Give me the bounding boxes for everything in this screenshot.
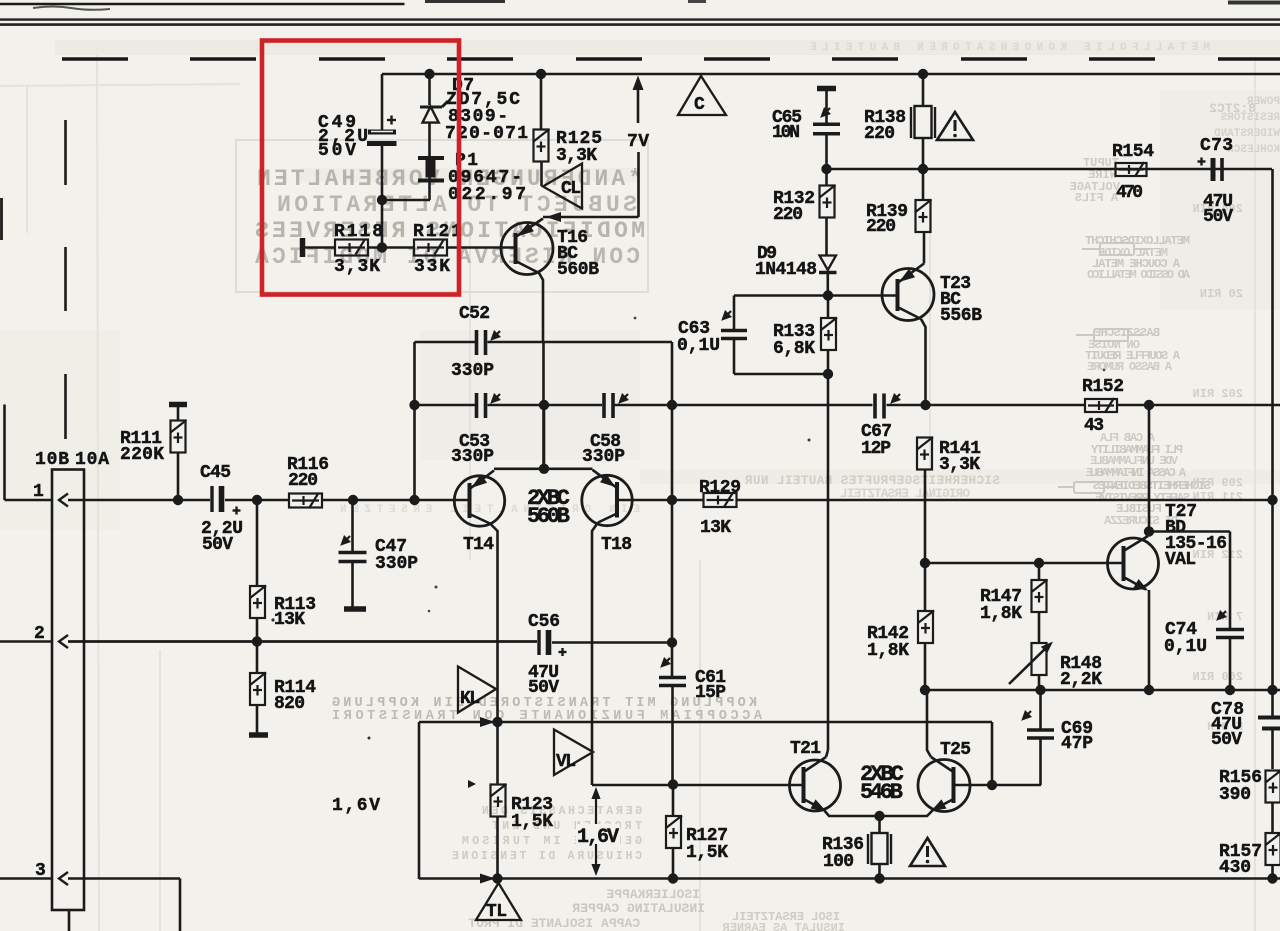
svg-text:INSULAT AS EARNER: INSULAT AS EARNER xyxy=(722,921,845,931)
resistor R114 xyxy=(256,642,259,674)
wire C52 row xyxy=(415,341,476,344)
capacitor C52 xyxy=(477,330,486,355)
transistor T25 xyxy=(918,760,970,812)
resistor R113 xyxy=(256,500,259,586)
svg-text:KL: KL xyxy=(460,689,480,709)
svg-text:220: 220 xyxy=(866,217,896,237)
node C65/R132 xyxy=(821,164,831,174)
svg-text:20 RIN: 20 RIN xyxy=(1200,287,1243,301)
svg-text:KOHLESCH: KOHLESCH xyxy=(1227,144,1280,156)
node column672 on wire500 xyxy=(667,495,677,505)
warning triangle top xyxy=(937,112,973,140)
dashed separator line xyxy=(62,57,1280,60)
svg-text:T18: T18 xyxy=(601,535,632,555)
svg-text:220: 220 xyxy=(773,205,803,225)
connector block xyxy=(52,470,84,911)
resistor R147 xyxy=(1038,563,1041,580)
resistor R152 xyxy=(1085,398,1117,413)
resistor R141 xyxy=(917,437,933,470)
node C61/T21 base xyxy=(668,779,678,789)
svg-text:R154: R154 xyxy=(1112,142,1154,162)
amplifier KL xyxy=(458,667,496,713)
svg-text:1,6V: 1,6V xyxy=(332,796,380,816)
wire row 169 xyxy=(827,168,1273,171)
svg-text:1,5K: 1,5K xyxy=(511,812,553,832)
wire right column mid xyxy=(1271,500,1274,716)
wire left edge feed xyxy=(0,198,3,240)
svg-text:TL: TL xyxy=(486,902,507,922)
svg-text:10A: 10A xyxy=(75,450,109,470)
capacitor C45 xyxy=(212,486,222,512)
node D9/T23 xyxy=(823,290,833,300)
svg-text:1,8K: 1,8K xyxy=(867,641,909,661)
capacitor C49 xyxy=(381,74,384,130)
wire column 672 xyxy=(671,405,674,500)
node xyxy=(377,195,387,205)
node R138/R139 xyxy=(918,164,928,174)
svg-text:CL: CL xyxy=(561,179,581,199)
resistor R121 xyxy=(414,240,447,256)
svg-text:50V: 50V xyxy=(318,141,356,161)
svg-text:R121: R121 xyxy=(413,222,462,242)
amplifier VL xyxy=(554,730,593,776)
svg-text:50V: 50V xyxy=(1211,730,1242,750)
trimmer R148 xyxy=(1032,643,1047,675)
wire T14-T18 tops xyxy=(494,467,593,470)
resistor R118 xyxy=(335,240,368,256)
wire R129 right xyxy=(736,499,1273,502)
svg-text:390: 390 xyxy=(1219,785,1251,805)
highlight red box xyxy=(262,41,459,295)
svg-text:50V: 50V xyxy=(202,535,233,555)
svg-text:330P: 330P xyxy=(451,361,494,381)
svg-text:43: 43 xyxy=(1084,416,1104,436)
capacitor C69 xyxy=(1039,690,1042,729)
wire top bus 7V xyxy=(382,73,1280,76)
node R118/R121 xyxy=(377,242,387,252)
triangle TL xyxy=(476,883,521,920)
wire bus 690 xyxy=(925,689,1280,692)
svg-text:R152: R152 xyxy=(1082,377,1124,397)
wire R125 to CL xyxy=(540,162,543,187)
svg-text:50V: 50V xyxy=(1203,207,1233,227)
svg-text:200 RIN: 200 RIN xyxy=(1193,670,1243,684)
svg-text:1,5K: 1,5K xyxy=(686,843,728,863)
label 7V with arrow to bus xyxy=(637,90,640,123)
top border double rule xyxy=(0,18,1280,20)
node top bus xyxy=(424,69,434,79)
wire T25 base right xyxy=(954,784,1042,787)
wire main bus row 405 xyxy=(415,404,476,407)
svg-text:POWER: POWER xyxy=(1247,96,1280,108)
node R147 top xyxy=(1034,558,1044,568)
svg-text:220: 220 xyxy=(864,124,895,144)
wire R116 to T14 xyxy=(322,499,470,502)
node emitters xyxy=(874,811,884,821)
wire pin2 right of C56 xyxy=(552,641,672,644)
node KL xyxy=(492,717,502,727)
node R136 bottom xyxy=(874,873,884,883)
wire T18 base to R129 xyxy=(617,499,704,502)
transistor T18 xyxy=(582,475,632,525)
svg-text:C45: C45 xyxy=(200,463,231,483)
capacitor C73 xyxy=(1213,158,1222,181)
wire C52 left drop xyxy=(413,342,416,405)
wire R121 to T16 base xyxy=(447,246,515,249)
svg-text:546B: 546B xyxy=(860,780,903,805)
resistor R157 xyxy=(1266,833,1280,866)
resistor R133 xyxy=(827,296,830,319)
svg-text:6,8K: 6,8K xyxy=(773,339,815,359)
svg-text:12P: 12P xyxy=(861,439,891,459)
node right column xyxy=(1267,495,1277,505)
node C74 bottom xyxy=(1225,685,1235,695)
node C45 right xyxy=(252,495,262,505)
node T25 base xyxy=(987,780,997,790)
wire CL output xyxy=(543,216,639,219)
capacitor C47 xyxy=(351,500,354,552)
node R116/C47 xyxy=(348,495,358,505)
left vertical dashed line xyxy=(64,120,67,439)
wire R118-R121 xyxy=(368,246,414,249)
wire T27 collector to C74 xyxy=(1149,530,1230,533)
svg-text:560B: 560B xyxy=(557,260,599,280)
svg-text:13K: 13K xyxy=(700,518,731,538)
node R113/pin2 xyxy=(252,636,262,646)
node C53 left xyxy=(409,400,419,410)
svg-text:50V: 50V xyxy=(528,678,559,698)
amplifier CL xyxy=(543,164,582,209)
resistor R116 xyxy=(289,493,322,508)
svg-text:T25: T25 xyxy=(940,740,971,760)
svg-text:1,8K: 1,8K xyxy=(980,604,1022,624)
node R152 right xyxy=(1144,400,1154,410)
svg-text:2,2K: 2,2K xyxy=(1060,670,1102,690)
wire to R118 xyxy=(305,246,336,249)
wire right column top xyxy=(1271,169,1274,500)
crystal P1 xyxy=(418,158,444,181)
node R141/R142 xyxy=(920,558,930,568)
svg-text:3,3K: 3,3K xyxy=(334,257,380,277)
node C45 left xyxy=(173,495,183,505)
svg-text:1,6V: 1,6V xyxy=(577,826,619,849)
node R142 bottom xyxy=(920,685,930,695)
wire T23 base row xyxy=(734,294,897,297)
svg-text:556B: 556B xyxy=(940,306,982,326)
svg-text:C52: C52 xyxy=(459,304,490,324)
svg-text:1N4148: 1N4148 xyxy=(755,260,817,280)
node column414/pin1 xyxy=(409,495,419,505)
wire column 828-T21 xyxy=(827,405,830,750)
svg-text:RESISTORS: RESISTORS xyxy=(1220,112,1280,124)
svg-text:R118: R118 xyxy=(334,222,383,242)
svg-text:C73: C73 xyxy=(1200,136,1233,156)
resistor R129 xyxy=(704,493,737,508)
svg-text:0,1U: 0,1U xyxy=(677,336,720,356)
capacitor C58 xyxy=(604,393,613,418)
resistor R142 xyxy=(924,563,927,611)
wire C52 right corner down xyxy=(671,342,674,405)
svg-text:T14: T14 xyxy=(463,535,494,555)
diode D9 xyxy=(825,254,828,256)
svg-text:33K: 33K xyxy=(414,257,450,277)
node C69 top xyxy=(1035,685,1045,695)
transistor T27 BD135 xyxy=(1148,405,1151,535)
node R123 bottom xyxy=(492,873,502,883)
triangle C xyxy=(678,76,726,115)
node pin2 end xyxy=(667,637,677,647)
svg-text:T21: T21 xyxy=(790,739,821,759)
node T27 collector xyxy=(1144,526,1154,536)
svg-text:13K: 13K xyxy=(274,610,305,630)
resistor R138 xyxy=(922,74,925,106)
page edge marks xyxy=(33,7,110,10)
svg-text:202 RIN: 202 RIN xyxy=(1193,387,1243,401)
svg-text:A BASSO RUMORE: A BASSO RUMORE xyxy=(1087,360,1172,374)
svg-text:330P: 330P xyxy=(582,447,625,467)
resistor R136 xyxy=(878,816,881,833)
svg-text:VL: VL xyxy=(556,752,576,772)
svg-text:820: 820 xyxy=(274,694,305,714)
svg-text:330P: 330P xyxy=(375,554,418,574)
svg-text:INSULATING CAPPER: INSULATING CAPPER xyxy=(572,901,705,916)
bracket 1,6V left xyxy=(418,722,421,879)
svg-text:ISOLIERKAPPE: ISOLIERKAPPE xyxy=(606,887,700,902)
svg-text:330P: 330P xyxy=(451,447,494,467)
transistor T16 BC560B xyxy=(501,223,553,275)
resistor R111 xyxy=(169,402,187,408)
node right column bottom xyxy=(1267,873,1277,883)
capacitor C56 xyxy=(539,630,549,655)
resistor R132 xyxy=(825,169,828,186)
svg-text:AD OSSIDO METALLICO: AD OSSIDO METALLICO xyxy=(1087,268,1190,282)
svg-text:470: 470 xyxy=(1116,183,1143,203)
svg-text:209 RIN: 209 RIN xyxy=(1193,476,1243,490)
capacitor C74 xyxy=(1229,532,1232,630)
svg-text:100: 100 xyxy=(823,852,854,872)
wire C49-P1 bottom link xyxy=(382,199,430,202)
svg-text:C: C xyxy=(694,95,705,115)
svg-text:0,1U: 0,1U xyxy=(1164,637,1207,657)
svg-text:A FILS: A FILS xyxy=(1075,191,1118,205)
wire pin2 bus xyxy=(536,640,539,643)
wire C63 bottom link xyxy=(734,373,828,376)
capacitor C67 xyxy=(875,394,884,419)
wire row 722 xyxy=(419,721,992,724)
capacitor C61 xyxy=(671,643,674,677)
node R133 bottom xyxy=(823,369,833,379)
wire column 414 to pin1 wire xyxy=(413,405,416,500)
svg-text:7V: 7V xyxy=(627,132,649,152)
svg-text:220K: 220K xyxy=(120,445,164,465)
node right column 690 xyxy=(1267,685,1277,695)
wire pin1 row xyxy=(225,499,289,502)
svg-text:560B: 560B xyxy=(527,504,570,529)
svg-text:R129: R129 xyxy=(699,478,741,498)
wire T16 collector column xyxy=(542,342,545,469)
svg-text:VAL: VAL xyxy=(1165,550,1196,570)
resistor R125 xyxy=(540,74,543,130)
svg-text:211 RIN: 211 RIN xyxy=(1193,490,1243,504)
wire T18 column corner row 785 xyxy=(592,784,803,787)
resistor R123 xyxy=(468,780,476,788)
svg-text:430: 430 xyxy=(1219,858,1251,878)
svg-text:3,3K: 3,3K xyxy=(939,455,980,475)
transistor T23 BC556B xyxy=(882,269,934,321)
svg-text:15P: 15P xyxy=(695,683,726,703)
wire T27 base row xyxy=(925,562,1124,565)
svg-text:10N: 10N xyxy=(772,123,800,143)
left terminal xyxy=(300,238,306,257)
transistor T14 xyxy=(454,476,504,526)
svg-text:C56: C56 xyxy=(528,612,560,632)
svg-text:10B: 10B xyxy=(35,450,69,470)
resistor R156 xyxy=(1266,770,1280,803)
transistor T21 xyxy=(790,760,841,811)
svg-text:47P: 47P xyxy=(1061,734,1093,754)
svg-text:A CASSA INFIAMMABLE: A CASSA INFIAMMABLE xyxy=(1086,466,1186,480)
capacitor C65 xyxy=(817,86,836,92)
svg-text:220: 220 xyxy=(288,471,318,491)
svg-text:3,3K: 3,3K xyxy=(556,146,597,166)
node C53/C58 xyxy=(539,400,549,410)
resistor R154 xyxy=(1116,162,1147,177)
wire bottom bus xyxy=(419,877,1280,880)
node tops xyxy=(539,464,549,474)
svg-text:SICHERHEITSGEPRUFTES BAUTEIL N: SICHERHEITSGEPRUFTES BAUTEIL NUR xyxy=(745,474,1000,488)
node T23 collector/R141 xyxy=(920,400,930,410)
capacitor C63 xyxy=(733,296,736,332)
node C52 corner column xyxy=(667,400,677,410)
meas arrow 1,6V right xyxy=(595,796,597,866)
node T27 emitter bottom xyxy=(1144,685,1154,695)
resistor R127 xyxy=(672,785,675,817)
warning triangle bottom xyxy=(910,838,945,866)
resistor R139 xyxy=(922,169,925,200)
zener diode D7 xyxy=(428,74,431,105)
capacitor C78 xyxy=(1258,718,1280,729)
capacitor C53 xyxy=(477,393,486,418)
node R127 bottom xyxy=(668,873,678,883)
